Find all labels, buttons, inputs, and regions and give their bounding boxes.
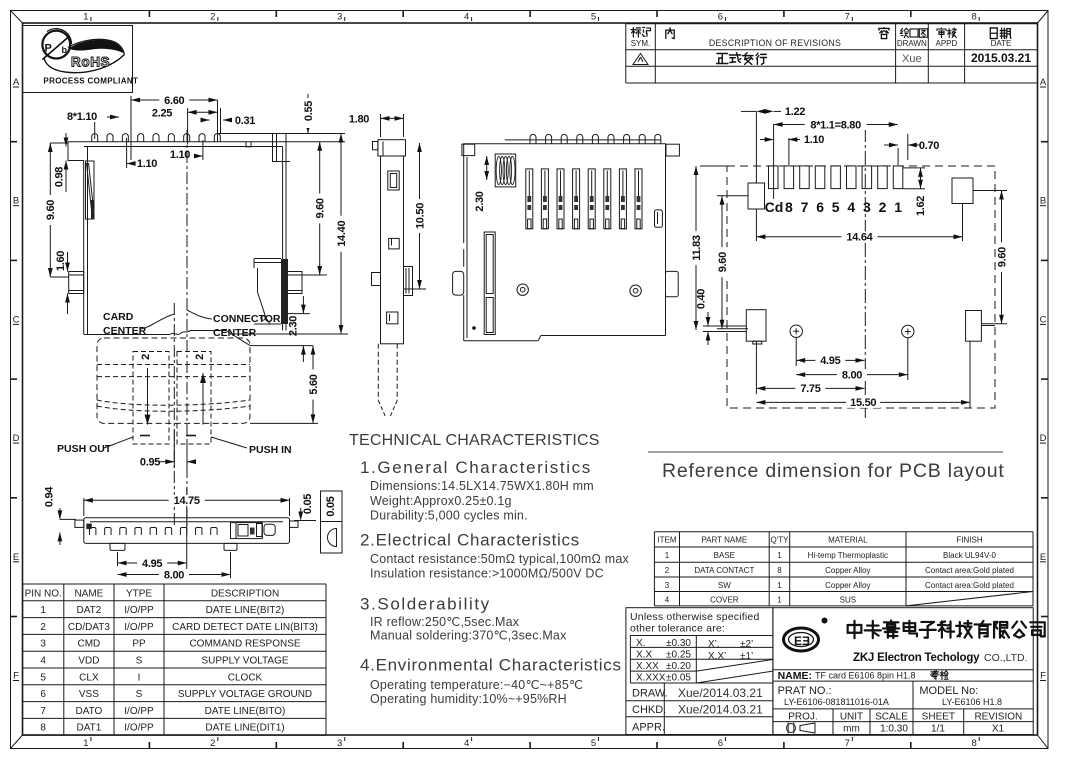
top view body outline: [464, 144, 666, 336]
svg-text:I: I: [138, 672, 141, 683]
svg-text:2: 2: [194, 354, 206, 360]
svg-text:7: 7: [40, 706, 46, 717]
svg-text:14.64: 14.64: [846, 232, 873, 244]
svg-text:COMMAND RESPONSE: COMMAND RESPONSE: [189, 639, 300, 650]
svg-text:2: 2: [140, 354, 152, 360]
dim 1.10 a: [126, 138, 128, 168]
dim 0.98: [65, 133, 67, 147]
svg-text:B: B: [13, 196, 19, 207]
svg-text:REVISION: REVISION: [974, 712, 1022, 723]
svg-text:Black UL94V-0: Black UL94V-0: [943, 551, 996, 560]
pcb corner pad BR: [966, 311, 982, 342]
side view card dashed below: [377, 344, 379, 401]
svg-text:2.Electrical Characteristics: 2.Electrical Characteristics: [360, 531, 580, 550]
revision row1 description 正式发行: [717, 54, 728, 64]
dim 1.10 pcb: [760, 139, 774, 141]
svg-text:1/1: 1/1: [931, 724, 945, 735]
svg-text:9.60: 9.60: [996, 247, 1008, 267]
pcb mount hole right: [902, 325, 914, 337]
dim 0.70: [884, 144, 898, 146]
side view window middle hook: [389, 238, 400, 249]
svg-text:±0.05: ±0.05: [666, 673, 691, 684]
dim 9.60 pcb right: [973, 190, 1007, 192]
svg-text:S: S: [136, 689, 143, 700]
svg-text:4: 4: [847, 199, 855, 215]
svg-text:3.Solderability: 3.Solderability: [360, 595, 491, 614]
svg-text:PART NAME: PART NAME: [701, 536, 747, 545]
dim 0.55: [307, 94, 309, 134]
svg-text:1:0.30: 1:0.30: [880, 724, 908, 735]
svg-text:CO.,LTD.: CO.,LTD.: [984, 652, 1028, 664]
svg-text:Contact area:Gold plated: Contact area:Gold plated: [925, 566, 1014, 575]
svg-text:PP: PP: [132, 639, 146, 650]
svg-text:±0.20: ±0.20: [666, 661, 691, 672]
front view right mount tab: [286, 272, 302, 294]
top view top pins: [530, 134, 536, 143]
svg-text:X1: X1: [992, 724, 1005, 735]
svg-text:0.94: 0.94: [44, 486, 56, 507]
svg-text:E: E: [13, 552, 19, 563]
top view cover back edge: [505, 139, 661, 141]
svg-text:Q'TY: Q'TY: [770, 536, 789, 545]
svg-text:8.00: 8.00: [164, 569, 184, 581]
svg-text:Insulation resistance:>1000MΩ: Insulation resistance:>1000MΩ/500V DC: [370, 567, 604, 581]
card dashed outline: [97, 338, 250, 423]
svg-text:DRAWN: DRAWN: [897, 39, 927, 48]
svg-text:Copper Alloy: Copper Alloy: [825, 566, 870, 575]
svg-text:ITEM: ITEM: [657, 536, 676, 545]
front view switch assembly: [281, 259, 288, 324]
dim 9.60 pcb left: [717, 195, 748, 197]
card inner dashed rect left: [133, 352, 169, 445]
svg-text:2: 2: [210, 12, 215, 23]
svg-text:X.: X.: [636, 638, 645, 649]
dim 11.83: [700, 165, 727, 167]
svg-text:1.22: 1.22: [785, 106, 805, 118]
top view contact slots: [526, 169, 533, 229]
svg-text:6: 6: [718, 738, 723, 749]
revision header description: [666, 28, 674, 39]
svg-text:C: C: [13, 314, 20, 325]
side view window upper: [388, 171, 399, 190]
svg-text:F: F: [1040, 671, 1046, 682]
svg-text:2: 2: [210, 738, 215, 749]
svg-text:6.60: 6.60: [164, 95, 184, 107]
svg-text:Reference dimension for PCB: Reference dimension for PCB layout: [662, 460, 1005, 482]
svg-text:14.75: 14.75: [174, 495, 200, 507]
push out arrow: [147, 368, 149, 425]
svg-text:SUS: SUS: [840, 595, 856, 604]
svg-text:0.31: 0.31: [235, 115, 255, 127]
svg-text:9.60: 9.60: [45, 200, 57, 220]
svg-text:4: 4: [464, 12, 469, 23]
svg-text:0.55: 0.55: [303, 101, 315, 121]
svg-text:0.98: 0.98: [54, 167, 66, 187]
dim 1.62: [903, 167, 925, 169]
svg-text:MATERIAL: MATERIAL: [828, 536, 868, 545]
svg-text:9.60: 9.60: [717, 252, 729, 272]
svg-text:2: 2: [665, 566, 670, 575]
pcb vertical centerline: [864, 128, 866, 420]
svg-text:7: 7: [845, 738, 850, 749]
svg-text:Copper Alloy: Copper Alloy: [825, 581, 870, 590]
svg-text:Weight:Approx0.25±0.1g: Weight:Approx0.25±0.1g: [370, 494, 512, 508]
svg-text:8: 8: [785, 199, 793, 215]
svg-text:CMD: CMD: [78, 639, 101, 650]
svg-text:SYM.: SYM.: [631, 39, 651, 48]
svg-text:1.General Characteristics: 1.General Characteristics: [360, 458, 592, 477]
svg-text:4: 4: [40, 656, 46, 667]
svg-text:D: D: [1040, 433, 1047, 444]
dim 0.31: [201, 119, 210, 121]
svg-text:b: b: [62, 45, 68, 55]
svg-text:mm: mm: [843, 724, 860, 735]
svg-text:X.XXX: X.XXX: [636, 673, 666, 684]
border row ticks right: [1041, 141, 1048, 143]
top view small slot right: [655, 210, 663, 227]
svg-text:B: B: [1040, 196, 1046, 207]
dim 2.30 front: [288, 313, 310, 315]
pcb pads row: [769, 166, 779, 189]
svg-text:4: 4: [464, 738, 469, 749]
svg-text:NAME: NAME: [74, 588, 103, 599]
front view body outline: [68, 141, 246, 143]
svg-text:11.83: 11.83: [691, 235, 703, 261]
svg-text:UNIT: UNIT: [840, 712, 863, 723]
svg-text:Contact resistance:50mΩ typi: Contact resistance:50mΩ typical,100mΩ ma…: [370, 552, 629, 566]
card inner dashed rect right: [177, 352, 211, 445]
dim 2.30 top view: [486, 156, 488, 180]
dim 0.95: [159, 461, 174, 463]
card dashed horizontal lines: [97, 364, 250, 366]
svg-text:CLOCK: CLOCK: [228, 672, 263, 683]
name row: [773, 669, 1033, 671]
svg-text:Dimensions:14.5LX14.75WX1.80H: Dimensions:14.5LX14.75WX1.80H mm: [370, 479, 594, 493]
svg-text:4: 4: [665, 595, 670, 604]
svg-text:SW: SW: [718, 581, 731, 590]
svg-text:TF card E6106 8pin H1.8: TF card E6106 8pin H1.8: [815, 671, 916, 681]
svg-text:1: 1: [83, 738, 88, 749]
svg-text:I/O/PP: I/O/PP: [124, 605, 154, 616]
card bottom ticks: [140, 435, 150, 437]
border column ticks bottom: [148, 742, 150, 749]
bottom view center extension line: [186, 487, 188, 578]
pcb side connector lines: [981, 325, 995, 327]
svg-text:Ǝ: Ǝ: [802, 634, 810, 648]
reference dimension heading: [648, 451, 1003, 453]
dim 14.75: [83, 498, 85, 516]
svg-text:S: S: [136, 656, 143, 667]
svg-text:LY-E6106 H1.8: LY-E6106 H1.8: [942, 697, 1002, 707]
svg-text:3: 3: [863, 199, 871, 215]
svg-text:I/O/PP: I/O/PP: [124, 706, 154, 717]
svg-text:1: 1: [665, 551, 670, 560]
svg-text:1: 1: [777, 551, 782, 560]
svg-text:0.05: 0.05: [302, 494, 314, 514]
parts table empty finish diagonal: [906, 592, 1033, 606]
svg-text:9.60: 9.60: [315, 198, 327, 218]
top view right ear: [666, 144, 679, 156]
svg-text:4.Environmental Characteristi: 4.Environmental Characteristics: [360, 656, 622, 675]
pcb 0.40 strip lines: [703, 325, 746, 327]
draw/chkd/appr rows: [626, 700, 773, 702]
RoHS logo leaf swoosh: [42, 29, 124, 73]
svg-text:F: F: [13, 671, 19, 682]
svg-text:8: 8: [972, 12, 977, 23]
svg-text:X.X: X.X: [636, 650, 652, 661]
dim 15.50: [969, 341, 971, 408]
svg-text:DAT2: DAT2: [76, 605, 101, 616]
top view spring: [495, 154, 516, 187]
dim 8.00 bottom: [230, 552, 232, 578]
dim 8*1.1=8.80: [788, 138, 790, 165]
svg-text:1.10: 1.10: [170, 149, 190, 161]
dim 9.60 right: [286, 274, 327, 276]
dim 4.95 bottom: [117, 552, 119, 566]
svg-text:2015.03.21: 2015.03.21: [971, 51, 1031, 65]
top view left tab: [453, 271, 464, 295]
top view right tab: [666, 271, 679, 296]
dim 1.22: [756, 109, 765, 114]
svg-text:±2’: ±2’: [740, 639, 753, 650]
parts table grid: [654, 531, 1033, 533]
top view small dot: [472, 326, 476, 330]
push in arrow: [202, 373, 204, 425]
svg-text:3: 3: [337, 738, 342, 749]
svg-text:±1’: ±1’: [740, 651, 753, 662]
pcb 1.22 strip: [755, 111, 757, 183]
pcb mount hole left: [790, 325, 802, 337]
front view card detect spring: [86, 161, 95, 219]
svg-text:I/O/PP: I/O/PP: [124, 723, 154, 734]
svg-text:BASE: BASE: [714, 551, 735, 560]
svg-text:0.95: 0.95: [140, 457, 160, 469]
company name chinese: [848, 621, 862, 638]
svg-text:0.05: 0.05: [325, 496, 337, 516]
company logo: [784, 628, 819, 651]
svg-text:E: E: [1040, 552, 1046, 563]
bottom view right tab: [290, 521, 299, 527]
dim 14.40: [230, 333, 348, 335]
svg-text:DATE: DATE: [991, 39, 1012, 48]
bottom view left tab: [75, 520, 84, 527]
svg-text:6: 6: [40, 689, 46, 700]
svg-text:3: 3: [665, 581, 670, 590]
dim 8.00 pcb: [907, 338, 909, 380]
side view top-left ear: [373, 142, 378, 150]
svg-text:VDD: VDD: [78, 656, 99, 667]
side view left mount tab: [372, 273, 381, 286]
flatness tolerance box: [321, 491, 343, 553]
svg-text:0.70: 0.70: [919, 140, 939, 152]
svg-text:LY-E6106-081811016-01A: LY-E6106-081811016-01A: [784, 697, 889, 707]
tolerance diagonals: [696, 660, 773, 672]
svg-text:COVER: COVER: [710, 595, 739, 604]
svg-text:1.62: 1.62: [915, 196, 927, 216]
svg-text:SCALE: SCALE: [875, 712, 908, 723]
svg-text:DATO: DATO: [75, 706, 102, 717]
svg-text:other tolerance are:: other tolerance are:: [630, 623, 725, 635]
dim 14.64: [755, 209, 757, 241]
svg-text:VSS: VSS: [79, 689, 99, 700]
svg-text:FINISH: FINISH: [956, 536, 982, 545]
pcb dashed outline: [727, 166, 995, 408]
svg-text:8: 8: [40, 723, 46, 734]
card dashed bottom curves: [97, 400, 250, 405]
border corner diagonals: [11, 11, 23, 24]
svg-text:SHEET: SHEET: [922, 712, 955, 723]
top view left rail strip: [484, 232, 495, 335]
svg-text:DAT1: DAT1: [76, 723, 101, 734]
revision header drawn: [900, 28, 908, 37]
svg-text:PROCESS COMPLIANT: PROCESS COMPLIANT: [43, 77, 138, 86]
svg-text:X.XX: X.XX: [636, 661, 659, 672]
svg-text:DATE LINE(BIT2): DATE LINE(BIT2): [206, 605, 285, 616]
svg-text:7.75: 7.75: [800, 383, 820, 395]
svg-text:DATE LINE(DIT1): DATE LINE(DIT1): [205, 723, 284, 734]
svg-text:X.X’: X.X’: [708, 651, 726, 662]
svg-text:YTPE: YTPE: [126, 588, 152, 599]
svg-text:1: 1: [777, 581, 782, 590]
svg-text:Durability:5,000 cycles min.: Durability:5,000 cycles min.: [370, 509, 528, 523]
dim 9.60 left: [50, 142, 68, 144]
svg-text:CENTER: CENTER: [103, 325, 147, 337]
svg-text:Xue/2014.03.21: Xue/2014.03.21: [678, 686, 763, 700]
pin assignment table: [23, 583, 326, 585]
svg-text:CONNECTOR: CONNECTOR: [213, 313, 281, 325]
svg-text:CARD DETECT DATE LIN(BIT3): CARD DETECT DATE LIN(BIT3): [172, 622, 318, 633]
dim 7.75: [755, 341, 757, 394]
dim 0.40: [707, 312, 709, 326]
svg-text:1.10: 1.10: [804, 134, 824, 146]
svg-text:Xue: Xue: [902, 53, 922, 65]
svg-text:5: 5: [40, 672, 46, 683]
svg-text:2: 2: [879, 199, 887, 215]
svg-text:MODEL No:: MODEL No:: [919, 685, 978, 697]
svg-text:2.30: 2.30: [474, 191, 486, 211]
svg-text:PROJ.: PROJ.: [788, 712, 817, 723]
svg-text:1: 1: [40, 605, 46, 616]
svg-text:Manual soldering:370℃,3sec.Ma: Manual soldering:370℃,3sec.Max: [370, 629, 567, 643]
svg-text:A: A: [13, 77, 20, 88]
svg-text:5.60: 5.60: [308, 374, 320, 394]
front view top pins: [92, 134, 98, 142]
side view window lower: [387, 312, 398, 324]
svg-text:Unless otherwise specified: Unless otherwise specified: [630, 611, 760, 623]
svg-text:Contact area:Gold plated: Contact area:Gold plated: [925, 581, 1014, 590]
border column ticks top: [148, 11, 150, 18]
pcb corner pad BL: [746, 310, 766, 342]
bottom view outline: [84, 518, 290, 544]
tolerance mini table: [630, 635, 773, 637]
svg-text:E: E: [794, 634, 802, 648]
card centerline: [173, 303, 175, 528]
flatness symbol: [328, 529, 337, 547]
svg-text:D: D: [13, 433, 20, 444]
tolerance block box: [626, 608, 773, 735]
svg-text:CLX: CLX: [79, 672, 99, 683]
svg-text:RoHS: RoHS: [71, 55, 110, 70]
svg-text:A: A: [1040, 77, 1047, 88]
svg-text:2: 2: [40, 622, 46, 633]
svg-text:2.30: 2.30: [288, 316, 300, 336]
svg-text:±0.30: ±0.30: [666, 638, 691, 649]
svg-text:1.80: 1.80: [349, 114, 369, 126]
svg-text:PUSH IN: PUSH IN: [249, 444, 292, 456]
svg-text:7: 7: [801, 199, 809, 215]
svg-text:SUPPLY VOLTAGE GROUND: SUPPLY VOLTAGE GROUND: [178, 689, 312, 700]
dim 10.50: [404, 288, 426, 290]
side view top cap: [378, 140, 406, 156]
svg-text:15.50: 15.50: [850, 397, 876, 409]
svg-text:8: 8: [972, 738, 977, 749]
svg-text:3: 3: [337, 12, 342, 23]
svg-text:DRAW.: DRAW.: [632, 688, 668, 700]
revision row1 triangle symbol: [633, 54, 648, 65]
svg-text:ZKJ Electron Techology: ZKJ Electron Techology: [853, 652, 980, 664]
svg-text:CHKD.: CHKD.: [632, 704, 666, 716]
svg-text:4.95: 4.95: [820, 355, 840, 367]
dim 2.25: [187, 108, 189, 145]
svg-text:DESCRIPTION OF REVISIONS: DESCRIPTION OF REVISIONS: [709, 38, 841, 48]
svg-text:PIN NO.: PIN NO.: [25, 588, 62, 599]
svg-text:DATE LINE(BITO): DATE LINE(BITO): [205, 706, 286, 717]
svg-text:5: 5: [832, 199, 840, 215]
svg-text:5: 5: [591, 738, 596, 749]
svg-text:1: 1: [777, 595, 782, 604]
svg-text:8.00: 8.00: [842, 369, 862, 381]
svg-text:3: 3: [40, 639, 46, 650]
svg-text:7: 7: [845, 12, 850, 23]
svg-text:I/O/PP: I/O/PP: [124, 622, 154, 633]
bottom view right blocks: [231, 523, 263, 539]
svg-text:CENTER: CENTER: [213, 327, 257, 339]
dim 6.60: [130, 96, 132, 160]
dim 1.60: [67, 252, 69, 272]
revision header date: [990, 28, 997, 39]
bottom view left block: [86, 524, 92, 529]
svg-text:TECHNICAL CHARACTERISTICS: TECHNICAL CHARACTERISTICS: [349, 432, 600, 449]
svg-text:8*1.1=8.80: 8*1.1=8.80: [810, 119, 861, 131]
side view body outline: [381, 156, 404, 344]
side view right solder tab: [404, 267, 413, 296]
svg-text:C: C: [1040, 314, 1047, 325]
svg-text:1.60: 1.60: [55, 251, 67, 271]
svg-text:Hi-temp Thermoplastic: Hi-temp Thermoplastic: [808, 551, 888, 560]
svg-text:10.50: 10.50: [414, 203, 426, 229]
svg-text:DATA CONTACT: DATA CONTACT: [694, 566, 754, 575]
svg-text:CD/DAT3: CD/DAT3: [68, 622, 110, 633]
svg-text:1.10: 1.10: [137, 158, 157, 170]
revision table grid: [626, 23, 1038, 25]
svg-text:Xue/2014.03.21: Xue/2014.03.21: [678, 703, 763, 717]
svg-text:8*1.10: 8*1.10: [67, 111, 97, 123]
RoHS logo box: [23, 26, 133, 93]
svg-text:6: 6: [816, 199, 824, 215]
svg-text:PUSH OUT: PUSH OUT: [57, 443, 112, 455]
svg-text:IR reflow:250℃,5sec.Max: IR reflow:250℃,5sec.Max: [370, 615, 520, 629]
svg-text:2.25: 2.25: [152, 107, 172, 119]
dim 5.60: [250, 422, 318, 424]
front view bottom edge: [84, 334, 170, 336]
svg-text:5: 5: [591, 12, 596, 23]
dim 4.95 pcb: [795, 337, 797, 366]
svg-text:PRAT NO.:: PRAT NO.:: [778, 685, 832, 697]
svg-text:APPR.: APPR.: [632, 722, 665, 734]
svg-text:SUPPLY VOLTAGE: SUPPLY VOLTAGE: [201, 656, 288, 667]
revision header appd: [937, 28, 946, 38]
svg-text:APPD: APPD: [936, 39, 958, 48]
